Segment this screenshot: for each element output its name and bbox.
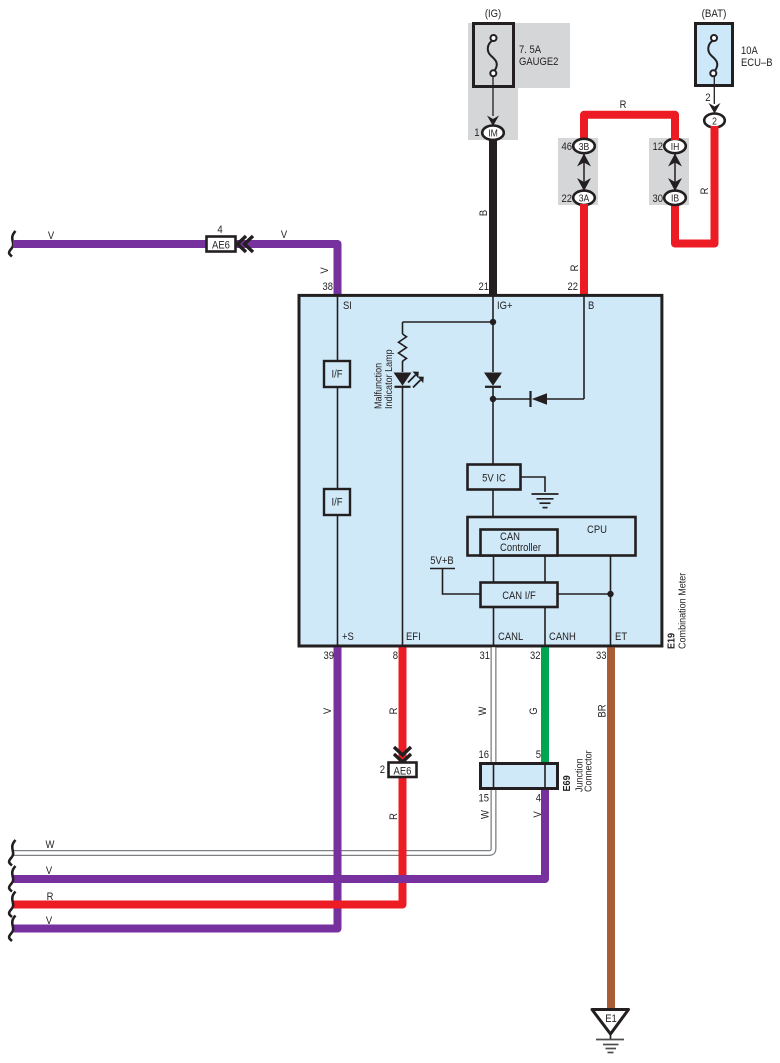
CAN I/F box [481, 583, 558, 608]
svg-text:G: G [528, 707, 540, 714]
svg-text:38: 38 [323, 281, 334, 293]
node junction IG+ branch [490, 319, 496, 325]
CAN Controller box [481, 530, 558, 556]
internal wire CANL to pin 31 [493, 607, 495, 646]
svg-text:5: 5 [536, 749, 541, 761]
double chevron into AE6 (lower) [394, 747, 411, 762]
wire R from oval 2 down and left up to IB [675, 126, 715, 244]
svg-text:B: B [478, 210, 490, 216]
svg-text:GAUGE2: GAUGE2 [519, 56, 558, 68]
connector arrow into oval 2 [709, 103, 721, 114]
internal wire CAN controller to CAN I/F (CANL side) [493, 556, 495, 583]
internal wire IG+ down [492, 296, 494, 372]
ground E1 symbol [592, 1010, 629, 1035]
fuse IG gray background [468, 23, 570, 140]
svg-text:3A: 3A [579, 194, 590, 205]
svg-text:1: 1 [474, 127, 479, 139]
wire fuse BAT to connector 2 [713, 76, 715, 104]
junction block IH/IB gray background [649, 138, 689, 205]
svg-text:R: R [569, 265, 581, 272]
left squiggle wire start V [9, 866, 15, 892]
svg-text:V: V [48, 230, 55, 242]
fuse F1 element symbol [488, 35, 497, 76]
svg-text:W: W [480, 810, 492, 819]
fuse F1 7.5A GAUGE2 box [474, 24, 514, 87]
svg-text:IM: IM [488, 129, 498, 140]
svg-text:21: 21 [479, 281, 490, 293]
svg-text:EFI: EFI [406, 631, 421, 643]
connector oval 3A [573, 191, 595, 205]
svg-text:2: 2 [712, 116, 717, 127]
svg-text:R: R [620, 99, 627, 111]
connector AE6 (lower) [389, 763, 417, 778]
left squiggle wire start V lower [9, 916, 15, 942]
svg-text:5V+B: 5V+B [430, 555, 453, 567]
double chevron into AE6 [238, 236, 254, 252]
value label 10A ECU-B [741, 45, 773, 69]
svg-text:IH: IH [671, 142, 680, 153]
svg-text:CAN I/F: CAN I/F [502, 590, 536, 602]
internal wire SI to +S [337, 296, 339, 646]
svg-text:5V IC: 5V IC [482, 473, 506, 485]
svg-text:I/F: I/F [332, 497, 343, 509]
svg-text:Combination Meter: Combination Meter [677, 572, 689, 649]
connector oval IM [482, 126, 504, 140]
internal wire CAN I/F to ET line [558, 593, 611, 595]
svg-text:R: R [388, 813, 400, 820]
svg-text:V: V [322, 707, 334, 714]
svg-text:3B: 3B [579, 142, 590, 153]
wire R (EFI) pin8 down and left to edge [13, 647, 403, 904]
connector oval 2 [704, 114, 725, 128]
svg-text:CANL: CANL [498, 631, 523, 643]
value label 7.5A GAUGE2 [519, 44, 558, 68]
LED malfunction indicator lamp [394, 372, 424, 388]
wire 5V IC to signal ground [521, 477, 545, 492]
svg-text:ET: ET [615, 631, 627, 643]
svg-text:Indicator Lamp: Indicator Lamp [383, 349, 395, 409]
svg-text:33: 33 [596, 650, 607, 662]
CPU box [468, 517, 636, 556]
wire G (CANH) pin32 to E69 pin5 [541, 647, 549, 763]
diode D2 from B line [531, 391, 548, 407]
5V IC box [468, 465, 521, 490]
svg-text:ECU–B: ECU–B [741, 57, 773, 69]
wire V from left edge to meter pin 38 [13, 244, 338, 295]
svg-text:32: 32 [530, 650, 541, 662]
wire fuse IG to connector IM [492, 76, 494, 116]
internal wire CANH to pin 32 [544, 607, 546, 646]
connector pass-through arrows 3B-3A [577, 152, 591, 192]
wire V (+S) pin39 down and left to edge [13, 647, 338, 928]
svg-text:W: W [477, 706, 489, 715]
I/F box upper [324, 361, 350, 387]
wire B (black) IM to meter pin 21 [489, 139, 497, 295]
svg-text:22: 22 [562, 193, 573, 205]
svg-text:15: 15 [479, 793, 490, 805]
5V+B supply symbol and wire to CAN I/F [430, 569, 480, 595]
wire V from E69 pin4 down and left to edge [13, 789, 545, 879]
svg-text:2: 2 [380, 764, 385, 776]
svg-text:E69: E69 [561, 775, 573, 791]
svg-text:8: 8 [393, 650, 398, 662]
internal wire B pin to diode D2 [545, 296, 584, 399]
svg-text:10A: 10A [741, 45, 758, 57]
svg-text:IB: IB [671, 194, 679, 205]
I/F box lower [324, 489, 350, 515]
resistor (lamp series) [399, 334, 407, 361]
svg-text:AE6: AE6 [212, 240, 230, 252]
internal wire CPU to ET [610, 556, 612, 646]
junction block 3B/3A gray background [558, 138, 598, 205]
svg-text:7. 5A: 7. 5A [519, 44, 542, 56]
svg-text:IG+: IG+ [497, 300, 513, 312]
svg-text:W: W [46, 839, 55, 851]
internal wire diode to junction [492, 387, 494, 464]
svg-text:46: 46 [562, 141, 573, 153]
svg-text:R: R [699, 188, 711, 195]
svg-text:12: 12 [653, 141, 664, 153]
svg-text:22: 22 [568, 281, 579, 293]
svg-text:39: 39 [324, 650, 335, 662]
svg-text:B: B [588, 300, 594, 312]
connector label E69 Junction Connector (vertical) [561, 750, 595, 792]
fuse F2 10A ECU-B box [696, 24, 733, 86]
diode D1 on IG+ line [484, 373, 502, 387]
svg-text:CPU: CPU [587, 524, 607, 536]
connector pass-through arrows IH-IB [668, 152, 682, 192]
left squiggle wire start R [9, 892, 15, 918]
signal ground symbol [532, 494, 559, 508]
ground hatch [596, 1034, 624, 1053]
connector oval IH [664, 139, 686, 153]
svg-text:30: 30 [653, 193, 664, 205]
svg-text:4: 4 [536, 793, 541, 805]
svg-text:V: V [46, 915, 53, 927]
svg-text:Connector: Connector [583, 750, 595, 792]
internal wire junction to diode D2 [493, 398, 531, 400]
node junction ET [607, 591, 613, 597]
wire R from 3A down to meter pin 22 [580, 204, 588, 295]
svg-text:4: 4 [217, 224, 222, 236]
internal wire LED to EFI pin [402, 387, 404, 646]
connector arrow into IM [487, 116, 499, 127]
svg-text:(IG): (IG) [485, 8, 501, 20]
wire BR (ET) pin33 to ground E1 [607, 647, 615, 1009]
combination meter E19 box [299, 295, 662, 646]
wire W (CANL) pin31 to E69 pin16 and out pin15 to left edge [13, 647, 494, 853]
label Malfunction Indicator Lamp (vertical) [373, 349, 396, 409]
svg-text:V: V [281, 229, 288, 241]
svg-text:AE6: AE6 [394, 765, 412, 777]
svg-text:R: R [47, 891, 54, 903]
svg-text:CANH: CANH [549, 631, 576, 643]
connector oval IB [664, 191, 686, 205]
junction connector E69 box [481, 764, 558, 789]
wire R from IH up left down to 3B [584, 115, 675, 140]
svg-text:SI: SI [343, 300, 352, 312]
connector oval 3B [573, 139, 595, 153]
svg-text:E1: E1 [605, 1013, 617, 1025]
svg-text:31: 31 [480, 650, 491, 662]
left squiggle wire start W [9, 840, 15, 866]
svg-text:R: R [388, 708, 400, 715]
fuse F2 element symbol [708, 35, 717, 76]
connector label E19 Combination Meter (vertical) [665, 572, 688, 649]
svg-text:V: V [46, 865, 53, 877]
svg-text:V: V [319, 267, 331, 274]
svg-text:Controller: Controller [500, 542, 541, 554]
svg-text:16: 16 [479, 749, 490, 761]
svg-text:I/F: I/F [332, 369, 343, 381]
left squiggle wire start V [9, 231, 15, 257]
wire resistor to LED [402, 361, 404, 372]
internal wire 5V IC to CPU [492, 490, 494, 517]
connector AE6 (left) [207, 237, 236, 252]
svg-text:E19: E19 [665, 633, 677, 649]
svg-text:+S: +S [342, 631, 354, 643]
internal wire CAN controller to CAN I/F (CANH side) [544, 556, 546, 583]
svg-text:(BAT): (BAT) [702, 8, 727, 20]
svg-text:V: V [532, 811, 544, 818]
node junction below diode [490, 396, 496, 402]
svg-text:BR: BR [597, 704, 609, 717]
svg-text:2: 2 [705, 92, 710, 104]
internal wire branch to lamp resistor [403, 322, 494, 334]
